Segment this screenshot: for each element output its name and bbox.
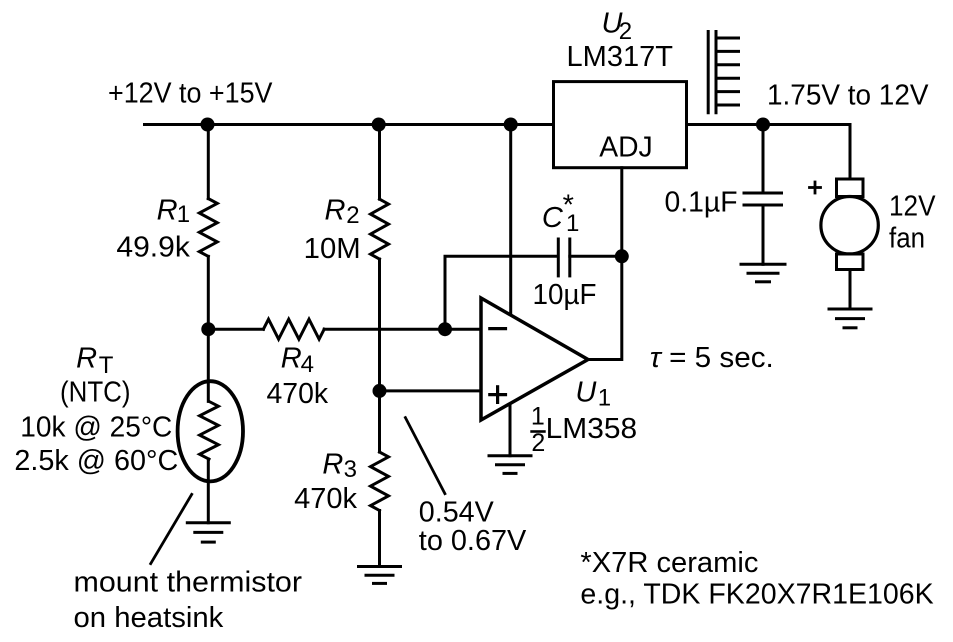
wire : output node down to 0.1uF cap bbox=[762, 125, 765, 192]
svg-text:0.54V: 0.54V bbox=[419, 497, 495, 529]
heatsink symbol bbox=[708, 32, 738, 113]
svg-text:on heatsink: on heatsink bbox=[74, 602, 224, 634]
wire : C1 right plate to ADJ node bbox=[570, 255, 622, 258]
resistor R3 bbox=[371, 452, 389, 511]
svg-text:(NTC): (NTC) bbox=[60, 376, 131, 408]
svg-text:R: R bbox=[76, 342, 97, 374]
svg-text:10k @ 25°C: 10k @ 25°C bbox=[20, 411, 172, 443]
wire : op-amp non-inverting input from node B bbox=[380, 389, 482, 392]
capacitor 0.1uF plates bbox=[744, 193, 782, 205]
svg-text:C: C bbox=[542, 202, 564, 234]
svg-text:470k: 470k bbox=[294, 483, 357, 515]
label : fraction bar of 1/2 bbox=[530, 430, 545, 433]
svg-text:LM358: LM358 bbox=[546, 413, 637, 445]
node B junction dot bbox=[373, 384, 387, 398]
node A junction dot bbox=[201, 322, 215, 336]
pointer line : 0.54V callout bbox=[405, 418, 445, 494]
svg-text:1: 1 bbox=[598, 385, 611, 412]
svg-text:1.75V to 12V: 1.75V to 12V bbox=[767, 80, 929, 112]
svg-text:R: R bbox=[157, 195, 178, 227]
capacitor C1 plates bbox=[558, 239, 570, 276]
svg-text:2.5k @ 60°C: 2.5k @ 60°C bbox=[14, 445, 178, 477]
node : rail junction at R2 bbox=[372, 118, 386, 132]
svg-text:2: 2 bbox=[531, 429, 545, 457]
ground : below thermistor bbox=[187, 523, 229, 542]
wire : output rail from U2 to fan branch bbox=[687, 125, 851, 180]
wire : R3 to ground bbox=[378, 511, 381, 567]
resistor R2 bbox=[371, 199, 389, 259]
svg-text:1: 1 bbox=[177, 201, 190, 228]
wire : R1 top from rail bbox=[207, 125, 210, 199]
node : rail junction at R1 bbox=[201, 118, 215, 132]
wire : feedback up from inverting input node bbox=[445, 256, 557, 329]
wire : R4 to op-amp inverting input bbox=[324, 328, 481, 331]
wire : op-amp V+ supply from rail bbox=[509, 125, 512, 315]
fan motor : top terminal rectangle bbox=[837, 179, 864, 197]
svg-text:ADJ: ADJ bbox=[599, 132, 653, 164]
wire : R1 bottom to node A bbox=[207, 256, 210, 329]
wire : R2 bottom to node B (crosses R4 wire, no junction) bbox=[378, 259, 381, 391]
svg-text:1: 1 bbox=[531, 403, 545, 431]
svg-text:4: 4 bbox=[301, 351, 314, 378]
svg-text:*: * bbox=[563, 190, 574, 222]
regulator U2 box bbox=[554, 82, 687, 168]
svg-text:10M: 10M bbox=[304, 233, 361, 265]
svg-text:+12V to +15V: +12V to +15V bbox=[108, 78, 273, 110]
svg-text:U: U bbox=[575, 377, 597, 409]
wire : node A down into thermistor bbox=[207, 329, 210, 401]
svg-text:R: R bbox=[322, 448, 343, 480]
thermistor RT ellipse bbox=[178, 381, 243, 481]
op-amp plus symbol bbox=[490, 387, 506, 403]
svg-text:3: 3 bbox=[344, 456, 357, 483]
resistor R4 bbox=[263, 319, 324, 339]
svg-text:mount thermistor: mount thermistor bbox=[74, 566, 303, 598]
svg-text:10µF: 10µF bbox=[533, 279, 597, 311]
svg-text:e.g., TDK FK20X7R1E106K: e.g., TDK FK20X7R1E106K bbox=[580, 579, 934, 611]
wire : 0.1uF to ground bbox=[762, 207, 765, 265]
ground : op-amp V- bbox=[489, 456, 531, 474]
wire : thermistor to ground bbox=[207, 459, 210, 523]
fan motor : bottom terminal rectangle bbox=[837, 254, 864, 270]
wire : fan to ground bbox=[849, 270, 852, 310]
wire : node down to op-amp output bbox=[588, 256, 622, 359]
resistor R1 bbox=[199, 199, 217, 257]
svg-text:12V: 12V bbox=[889, 191, 936, 223]
ground : below R3 bbox=[359, 567, 401, 584]
svg-text:τ = 5 sec.: τ = 5 sec. bbox=[650, 342, 774, 374]
svg-text:R: R bbox=[281, 342, 302, 374]
svg-text:LM317T: LM317T bbox=[567, 41, 674, 73]
svg-text:470k: 470k bbox=[267, 378, 329, 410]
wire : op-amp V- to ground bbox=[509, 404, 512, 456]
wire : ADJ pin from U2 box down to node bbox=[620, 168, 623, 257]
thermistor RT zigzag bbox=[200, 401, 219, 459]
wire : +12V supply rail bbox=[145, 123, 554, 126]
op-amp minus symbol bbox=[490, 327, 506, 330]
node : output rail junction at 0.1uF bbox=[756, 118, 770, 132]
op-amp U1 triangle bbox=[481, 298, 588, 420]
node : rail junction at op-amp V+ bbox=[504, 118, 518, 132]
fan motor : body circle bbox=[821, 197, 878, 254]
fan plus polarity symbol bbox=[810, 182, 821, 193]
svg-text:0.1µF: 0.1µF bbox=[665, 187, 738, 219]
pointer line : mount thermistor callout bbox=[151, 494, 192, 563]
svg-text:R: R bbox=[325, 194, 346, 226]
svg-text:to 0.67V: to 0.67V bbox=[419, 525, 527, 557]
node : ADJ / C1 / output junction bbox=[615, 249, 629, 263]
wire : node B down to R3 bbox=[378, 391, 381, 452]
svg-text:*X7R ceramic: *X7R ceramic bbox=[580, 547, 758, 579]
wire : R2 top from rail bbox=[378, 125, 381, 200]
svg-text:2: 2 bbox=[346, 202, 359, 229]
svg-text:T: T bbox=[99, 352, 114, 379]
svg-text:49.9k: 49.9k bbox=[116, 231, 190, 263]
wire : node A to R4 bbox=[208, 328, 263, 331]
svg-text:fan: fan bbox=[889, 223, 925, 255]
node : inverting input / feedback junction bbox=[438, 322, 452, 336]
ground : below 0.1uF bbox=[741, 264, 785, 282]
ground : below fan bbox=[829, 309, 871, 328]
